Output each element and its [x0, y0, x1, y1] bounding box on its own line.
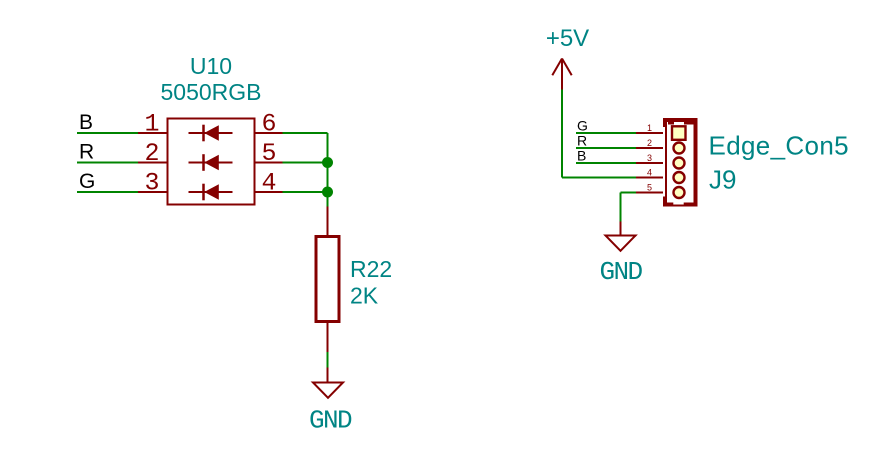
LED array U10 body — [168, 119, 255, 205]
connector J9 pin 4 stub — [636, 168, 664, 178]
ground symbol left — [313, 368, 343, 398]
svg-text:1: 1 — [647, 123, 652, 133]
wire J9 pin5 horizontal — [621, 192, 637, 194]
svg-text:GND: GND — [309, 406, 352, 436]
svg-text:Edge_Con5: Edge_Con5 — [709, 131, 850, 161]
wire bus vertical — [327, 133, 329, 207]
connector J9 pin 2 pad — [674, 143, 685, 154]
wire +5V to pin 4 of J9 — [562, 177, 636, 179]
connector J9 pin 5 pad — [674, 187, 685, 198]
wire net B to J9 pin3 — [576, 162, 636, 164]
connector J9 pin 1 pad (square) — [672, 126, 686, 140]
wire net B — [77, 132, 138, 134]
LED element top — [189, 125, 233, 142]
power symbol +5V arrow — [552, 59, 571, 90]
svg-text:B: B — [577, 147, 586, 163]
resistor R22 top pin — [327, 207, 329, 237]
wire net R — [77, 162, 138, 164]
resistor R22 body — [316, 237, 339, 322]
svg-text:G: G — [577, 117, 588, 133]
connector J9 pin 4 pad — [674, 172, 685, 183]
svg-text:2: 2 — [647, 138, 652, 148]
junction at pin 5 — [322, 157, 333, 168]
ground symbol right — [606, 222, 636, 251]
wire +5V vertical — [561, 90, 563, 178]
svg-text:4: 4 — [647, 168, 652, 178]
svg-text:J9: J9 — [709, 165, 736, 195]
svg-text:G: G — [79, 170, 95, 193]
wire net G — [77, 191, 138, 193]
pin 2 — [138, 139, 168, 168]
svg-text:2: 2 — [144, 139, 159, 168]
pin 6 — [255, 110, 283, 139]
svg-text:B: B — [79, 111, 93, 134]
svg-text:4: 4 — [261, 169, 276, 198]
resistor R22 bottom pin — [327, 323, 329, 352]
pin 5 — [255, 139, 283, 168]
connector J9 pin 2 stub — [636, 138, 664, 148]
connector J9 pin 1 stub — [636, 123, 664, 133]
LED element middle — [189, 154, 233, 171]
svg-text:5: 5 — [647, 183, 652, 193]
connector J9 pin 3 pad — [674, 158, 685, 169]
svg-text:R: R — [577, 132, 587, 148]
wire net G to J9 pin1 — [576, 132, 636, 134]
pin 4 — [255, 169, 283, 198]
svg-text:3: 3 — [144, 169, 159, 198]
svg-text:5: 5 — [261, 139, 276, 168]
connector J9 pin 5 stub — [636, 183, 664, 193]
wire pin6 to bus — [283, 132, 328, 134]
pin 1 — [138, 110, 168, 139]
wire pin4 to bus — [283, 191, 328, 193]
svg-text:+5V: +5V — [546, 25, 589, 52]
wire net R to J9 pin2 — [576, 147, 636, 149]
connector J9 pin 3 stub — [636, 153, 664, 163]
pin 3 — [138, 169, 168, 198]
svg-text:5050RGB: 5050RGB — [160, 79, 261, 105]
wire J9 pin5 vertical to ground — [620, 193, 622, 222]
wire pin5 to bus — [283, 162, 328, 164]
junction at pin 4 — [322, 187, 333, 198]
connector J9 body — [663, 120, 696, 205]
svg-text:R: R — [79, 141, 94, 164]
svg-text:GND: GND — [599, 257, 642, 287]
svg-text:U10: U10 — [190, 53, 232, 79]
svg-text:R22: R22 — [350, 256, 392, 282]
svg-text:2K: 2K — [350, 283, 379, 309]
svg-text:6: 6 — [261, 110, 276, 139]
wire resistor to ground — [327, 352, 329, 368]
svg-text:1: 1 — [144, 110, 159, 139]
svg-text:3: 3 — [647, 153, 652, 163]
LED element bottom — [189, 184, 233, 201]
